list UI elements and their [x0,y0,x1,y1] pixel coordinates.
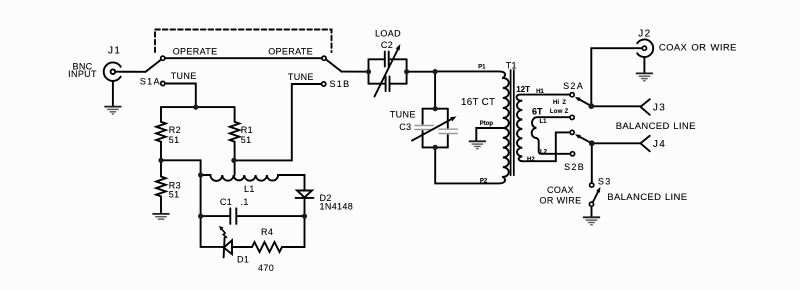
svg-text:C1: C1 [220,197,232,207]
svg-text:H2: H2 [527,157,535,163]
svg-text:S3: S3 [598,177,612,187]
svg-text:6T: 6T [532,107,543,117]
svg-text:L1: L1 [244,184,255,194]
svg-text:J3: J3 [653,103,666,114]
svg-text:R2: R2 [169,125,181,135]
svg-text:J1: J1 [108,46,121,57]
svg-text:P1: P1 [478,65,486,71]
svg-text:P2: P2 [480,178,488,184]
svg-text:D1: D1 [237,255,249,265]
svg-text:.1: .1 [241,197,249,207]
svg-text:Low Z: Low Z [550,109,569,115]
svg-text:J2: J2 [638,28,651,39]
svg-text:L1: L1 [540,119,548,125]
svg-text:S1B: S1B [330,79,351,89]
svg-text:12T: 12T [516,85,530,94]
svg-text:16T CT: 16T CT [461,97,495,108]
svg-text:COAX OR WIRE: COAX OR WIRE [659,43,737,54]
svg-text:COAX: COAX [547,185,574,195]
svg-text:C2: C2 [381,40,393,50]
svg-text:TUNE: TUNE [288,72,314,82]
svg-text:TUNE: TUNE [390,109,416,119]
svg-text:S1A: S1A [140,76,161,86]
svg-text:L2: L2 [540,149,548,155]
svg-text:51: 51 [241,135,252,145]
svg-text:LOAD: LOAD [375,29,401,39]
svg-text:OPERATE: OPERATE [173,46,218,56]
svg-text:R1: R1 [241,125,253,135]
svg-text:J4: J4 [653,139,666,150]
svg-text:Ptop: Ptop [480,121,494,127]
svg-text:INPUT: INPUT [68,69,97,79]
svg-text:1N4148: 1N4148 [320,202,354,212]
svg-text:S2B: S2B [564,162,585,172]
svg-text:470: 470 [258,263,274,273]
svg-text:R4: R4 [261,227,273,237]
svg-text:51: 51 [169,190,180,200]
svg-text:BALANCED LINE: BALANCED LINE [616,121,696,132]
svg-text:OPERATE: OPERATE [268,46,313,56]
svg-text:51: 51 [169,135,180,145]
svg-text:OR WIRE: OR WIRE [540,196,582,206]
svg-text:T1: T1 [506,60,517,70]
svg-text:C3: C3 [399,122,411,132]
svg-text:S2A: S2A [563,81,584,91]
svg-text:TUNE: TUNE [171,71,197,81]
svg-text:Hi Z: Hi Z [553,100,566,106]
svg-text:BALANCED LINE: BALANCED LINE [607,192,687,203]
svg-text:H1: H1 [536,89,544,95]
